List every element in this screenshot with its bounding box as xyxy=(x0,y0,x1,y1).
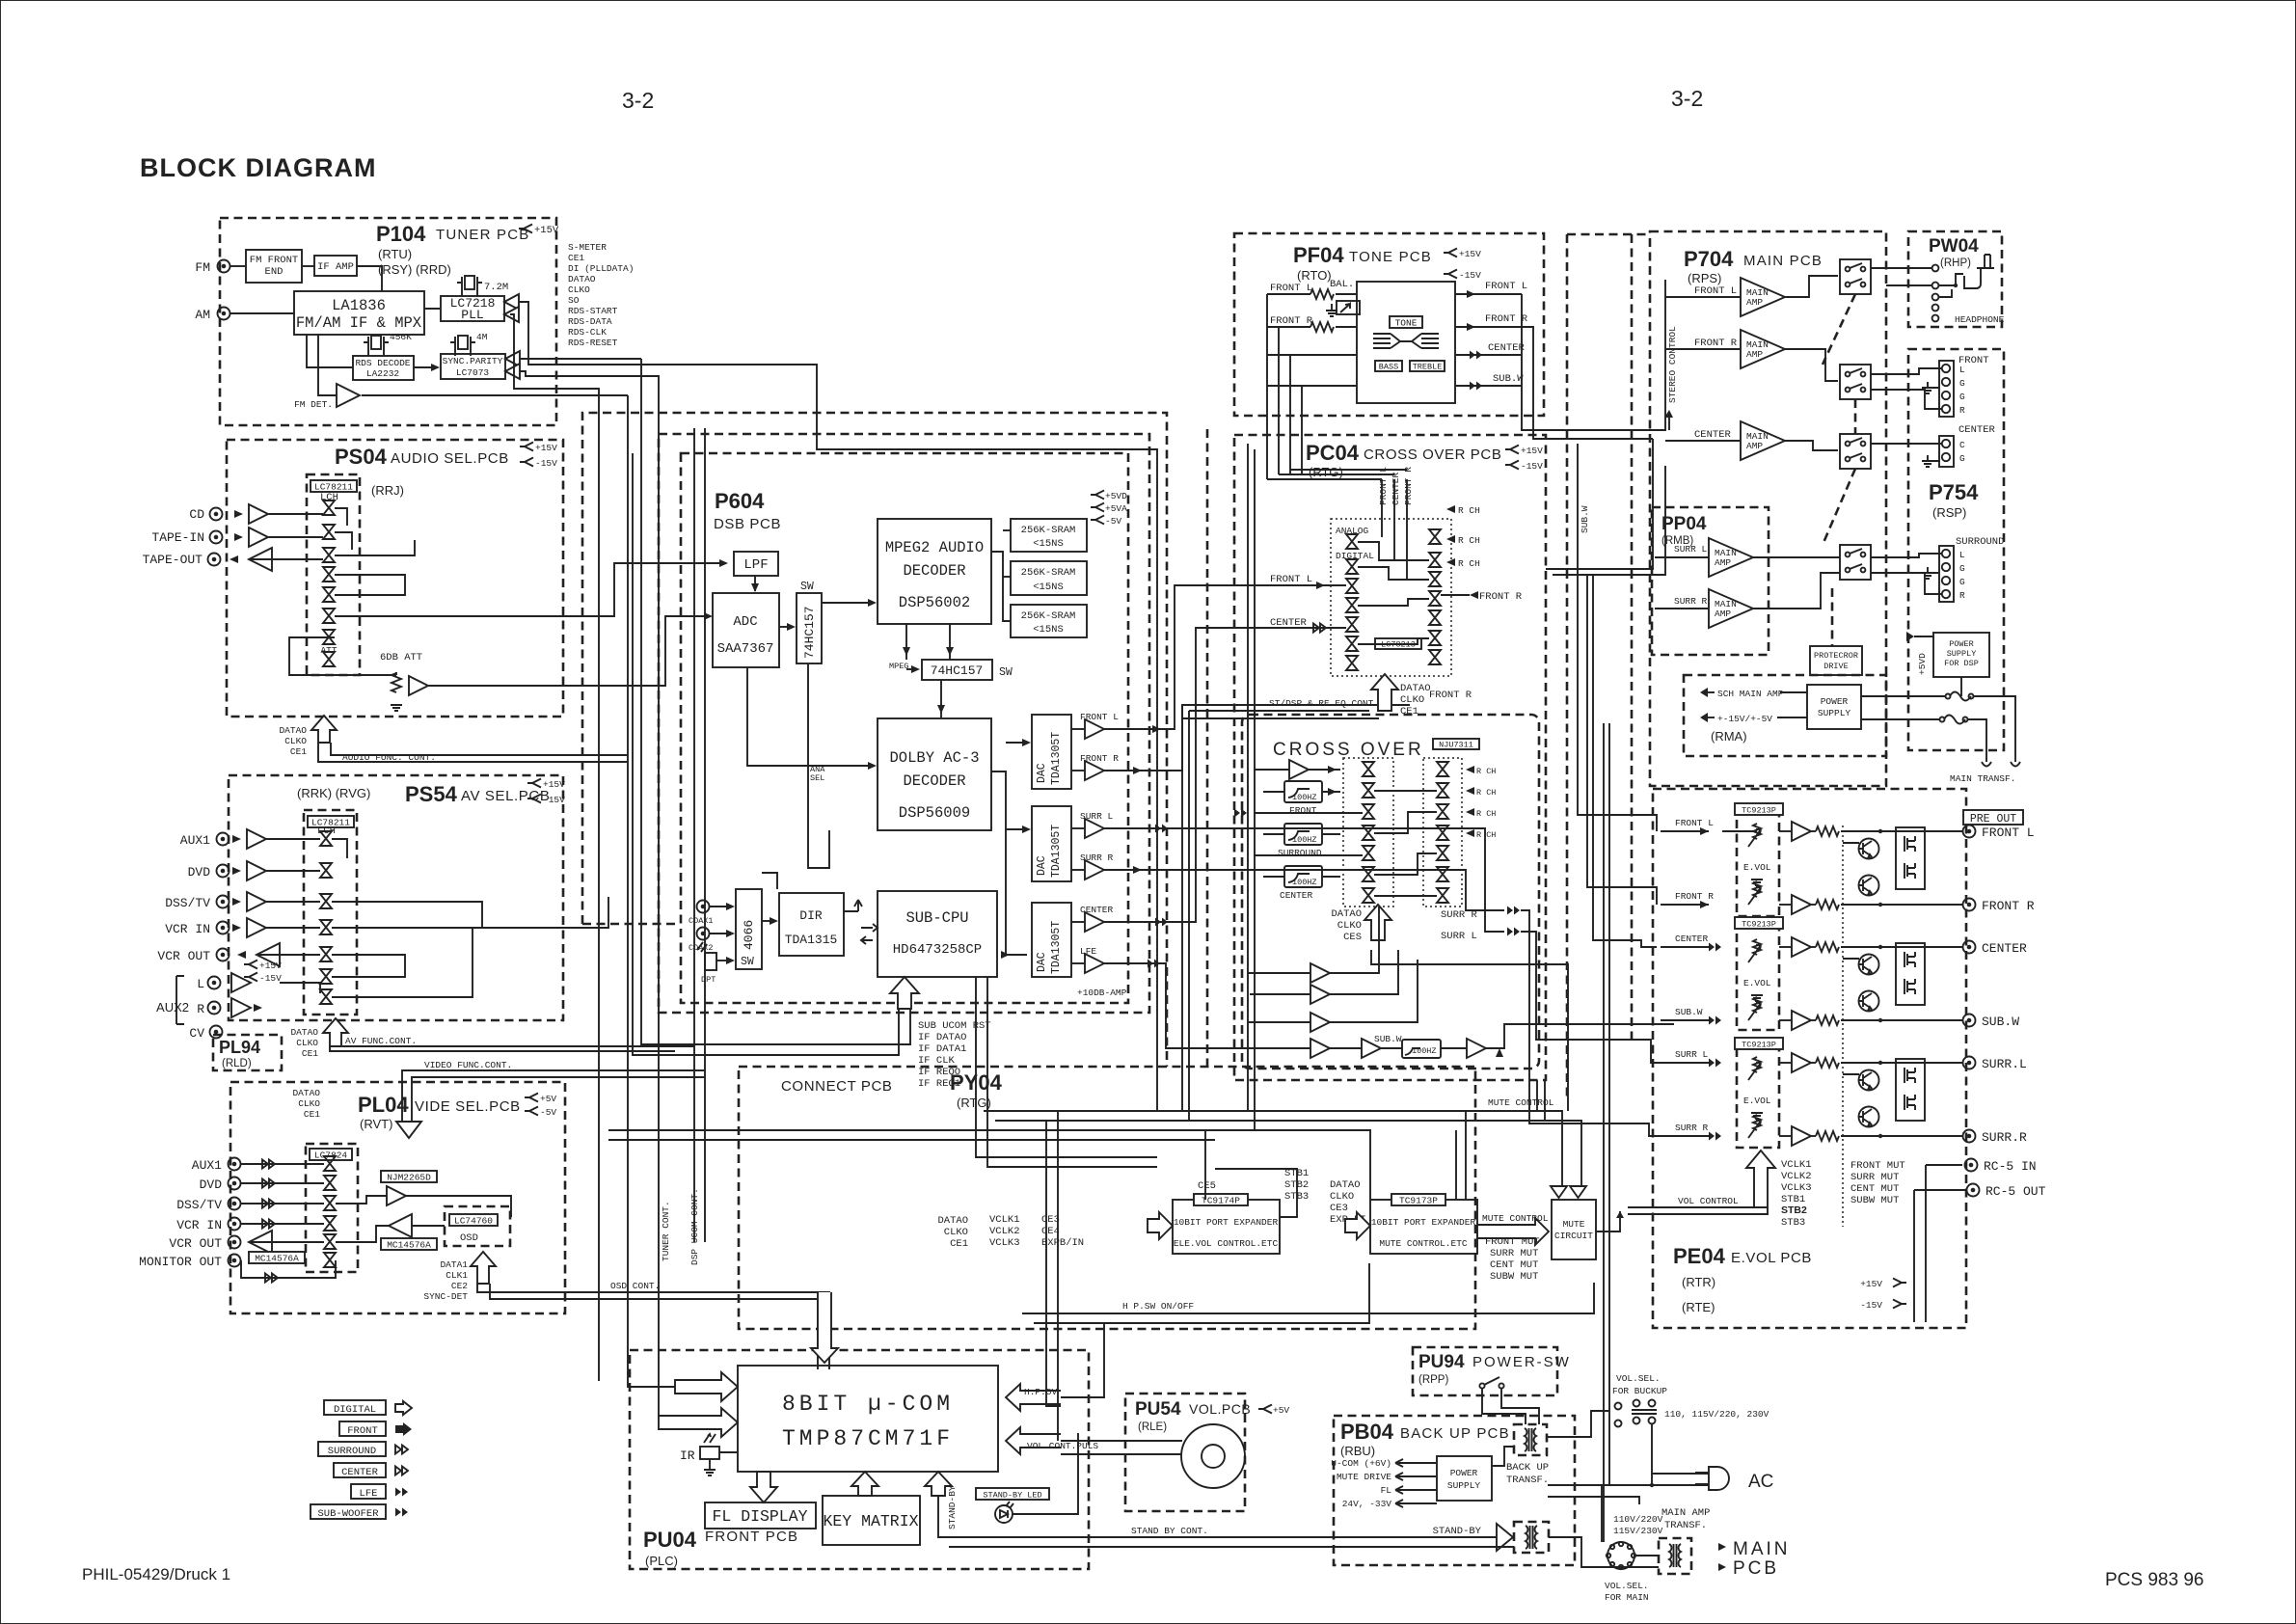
ground surr xyxy=(1922,573,1933,579)
wire tc9173p top feeds xyxy=(1455,1130,1457,1200)
label MC14576A mid xyxy=(381,1238,437,1250)
switch column LC78211 xyxy=(323,501,335,515)
block TC9174P xyxy=(1173,1200,1280,1254)
svg-text:(RPS): (RPS) xyxy=(1688,271,1721,285)
block MUTE CIRCUIT xyxy=(1552,1200,1596,1259)
svg-text:+15V: +15V xyxy=(1459,249,1481,259)
svg-text:R: R xyxy=(1959,590,1965,601)
fet block 2 xyxy=(1896,943,1925,1005)
svg-text:LC7824: LC7824 xyxy=(314,1150,348,1161)
svg-text:RDS-DATA: RDS-DATA xyxy=(568,316,612,327)
arrows down into mute circuit xyxy=(1551,1186,1567,1198)
wire relay to transf xyxy=(1549,1537,1659,1567)
wire bus TUNER CONT. xyxy=(628,395,675,1387)
svg-text:MUTE CONTROL.ETC: MUTE CONTROL.ETC xyxy=(1379,1238,1468,1249)
block POWER SUPPLY main xyxy=(1807,685,1861,729)
amp FM DET xyxy=(337,384,360,407)
svg-text:CLKO: CLKO xyxy=(1400,694,1424,706)
svg-text:SUPPLY: SUPPLY xyxy=(1447,1480,1481,1491)
svg-text:MAIN: MAIN xyxy=(1733,1539,1791,1559)
svg-text:DATAO: DATAO xyxy=(1330,1179,1361,1191)
svg-text:SUB.W: SUB.W xyxy=(1580,505,1590,533)
svg-text:PRE OUT: PRE OUT xyxy=(1970,813,2016,826)
svg-text:(RTO): (RTO) xyxy=(1297,268,1332,283)
svg-text:ATT: ATT xyxy=(320,645,337,656)
svg-text:(RTU): (RTU) xyxy=(378,247,412,261)
block DAC3 TDA1305T xyxy=(1032,903,1071,977)
svg-text:FRONT L: FRONT L xyxy=(1270,574,1312,585)
svg-text:L: L xyxy=(197,977,204,991)
wire TAPEIN to switch xyxy=(268,536,323,538)
svg-text:PHIL-05429/Druck 1: PHIL-05429/Druck 1 xyxy=(82,1565,230,1583)
svg-text:100HZ: 100HZ xyxy=(1292,835,1317,845)
chevrons surr out xyxy=(1507,907,1520,915)
amp OSD to out xyxy=(389,1214,412,1237)
dashed rail top xyxy=(1567,233,1650,236)
svg-text:100HZ: 100HZ xyxy=(1292,878,1317,887)
wire amp to vcr out xyxy=(336,1226,389,1242)
resistor front R xyxy=(1310,322,1334,332)
svg-text:R CH: R CH xyxy=(1476,830,1496,840)
block MPEG2 AUDIO DECODER DSP56002 xyxy=(878,519,991,624)
svg-text:+5V: +5V xyxy=(1273,1405,1289,1416)
main transf hooks xyxy=(1982,762,2020,767)
block ADC SAA7367 xyxy=(713,593,779,667)
arrow into LC7218 right 1 xyxy=(504,294,519,310)
svg-text:SYNC.PARITY: SYNC.PARITY xyxy=(443,356,503,366)
amp 6db att xyxy=(409,676,428,695)
amp ev FL xyxy=(1792,822,1811,841)
backup transformer box xyxy=(1514,1424,1547,1455)
svg-text:DAC: DAC xyxy=(1036,855,1048,876)
wire tuner bus C xyxy=(520,358,641,360)
wire tuner bus A xyxy=(519,302,1157,1111)
svg-text:MONITOR OUT: MONITOR OUT xyxy=(139,1255,222,1269)
svg-text:MC14576A: MC14576A xyxy=(387,1240,431,1251)
svg-text:DAC: DAC xyxy=(1036,952,1048,972)
dot j1 xyxy=(1954,284,1958,287)
block POWER SUPPLY FOR DSP xyxy=(1933,633,1989,677)
wire SL out xyxy=(1104,828,1504,932)
amp main SR xyxy=(1655,608,1709,609)
svg-text:OSD CONT.: OSD CONT. xyxy=(610,1281,660,1291)
svg-text:SURROUND: SURROUND xyxy=(1956,536,2004,548)
svg-text:100HZ: 100HZ xyxy=(1292,793,1317,802)
svg-text:FRONT R: FRONT R xyxy=(1479,591,1523,603)
connector PRE SURR.R xyxy=(1963,1130,1976,1143)
wire DIR to SUBCPU xyxy=(844,900,862,911)
svg-text:CLKO: CLKO xyxy=(284,736,307,746)
svg-text:SW: SW xyxy=(741,956,754,968)
block LPF xyxy=(734,552,778,576)
wire aux1 out xyxy=(332,839,347,858)
RMA dashed outline xyxy=(1684,675,1886,756)
svg-text:E.VOL: E.VOL xyxy=(1743,978,1771,988)
wire IF amp to LA1836 xyxy=(357,266,382,291)
label FRONT R mid xyxy=(1470,591,1478,599)
amp ev SW xyxy=(1792,1011,1811,1030)
svg-text:DSP56002: DSP56002 xyxy=(899,594,970,611)
svg-text:CIRCUIT: CIRCUIT xyxy=(1554,1231,1593,1241)
wire vol cont puls xyxy=(1061,1440,1182,1442)
svg-text:IF DATAO: IF DATAO xyxy=(918,1032,966,1043)
outer dashed frame stub xyxy=(582,923,675,926)
wire vertical 1294 xyxy=(1247,444,1249,1111)
res ev SL xyxy=(1816,1058,1839,1068)
svg-text:LC74760: LC74760 xyxy=(454,1216,493,1227)
power +5VD xyxy=(1091,491,1104,500)
svg-text:10BIT PORT EXPANDER: 10BIT PORT EXPANDER xyxy=(1371,1217,1476,1228)
svg-text:(RTE): (RTE) xyxy=(1682,1300,1715,1314)
legend FRONT xyxy=(339,1421,386,1436)
svg-text:E.VOL: E.VOL xyxy=(1743,1096,1771,1106)
svg-text:+15V: +15V xyxy=(534,225,559,236)
wires tone left xyxy=(1267,293,1310,295)
connector PRE SUB.W xyxy=(1963,1015,1976,1027)
svg-text:FM: FM xyxy=(195,260,210,275)
power +5VA xyxy=(1091,503,1104,512)
switch S1 xyxy=(1479,1383,1484,1388)
wire MPEG2 down to 74HC157 sw xyxy=(905,624,907,660)
wire LFE out xyxy=(1104,963,1362,1048)
svg-text:HEADPHONE: HEADPHONE xyxy=(1955,314,2005,325)
wires subw xyxy=(1381,1047,1402,1049)
wire DOLBY to DAC bus xyxy=(991,771,1006,955)
svg-text:BACK UP: BACK UP xyxy=(1506,1462,1549,1474)
power -5V xyxy=(1091,516,1104,525)
svg-text:VCLK3: VCLK3 xyxy=(1781,1182,1812,1194)
wire tuner bus E xyxy=(510,314,599,1381)
svg-text:DATAO: DATAO xyxy=(568,274,596,284)
svg-text:+15V: +15V xyxy=(1860,1279,1882,1289)
wire 74HC157sw to DOLBY xyxy=(940,680,942,717)
svg-text:(RRJ): (RRJ) xyxy=(371,483,404,498)
fuse 2 xyxy=(1861,718,1940,720)
svg-text:STAND-BY LED: STAND-BY LED xyxy=(983,1491,1041,1501)
wires coax to 4066 xyxy=(710,906,731,907)
label LC7824 xyxy=(310,1149,352,1160)
PY04 connect outline xyxy=(739,1067,1475,1329)
svg-text:MPEG2 AUDIO: MPEG2 AUDIO xyxy=(885,539,984,556)
PCB PU94 outline xyxy=(1413,1347,1557,1395)
svg-text:R CH: R CH xyxy=(1458,505,1480,516)
svg-text:SURR MUT: SURR MUT xyxy=(1850,1172,1899,1183)
svg-text:4066: 4066 xyxy=(742,920,756,950)
PCB PB04 outline xyxy=(1334,1416,1575,1565)
evol pot 2b xyxy=(1748,997,1761,1020)
crystal X1 7.2M xyxy=(457,276,482,289)
svg-text:SUB.W: SUB.W xyxy=(1493,373,1524,385)
svg-text:VOL CONTROL: VOL CONTROL xyxy=(1678,1196,1739,1206)
svg-text:AUDIO SEL.PCB: AUDIO SEL.PCB xyxy=(391,450,509,467)
wire standby 2 xyxy=(949,1546,1514,1548)
svg-text:BAL.: BAL. xyxy=(1330,279,1354,290)
filter 100HZ subw xyxy=(1402,1040,1441,1058)
amp VCR OUT video xyxy=(249,1231,272,1254)
svg-text:CENTER: CENTER xyxy=(1982,941,2027,956)
svg-text:R CH: R CH xyxy=(1458,558,1480,569)
svg-text:DSB PCB: DSB PCB xyxy=(714,516,781,532)
svg-text:FRONT MUT: FRONT MUT xyxy=(1850,1160,1905,1172)
svg-text:PCS 983 96: PCS 983 96 xyxy=(2105,1570,2203,1590)
svg-text:DATAO: DATAO xyxy=(290,1027,318,1038)
svg-text:(RTG): (RTG) xyxy=(1309,465,1343,479)
relay standby box xyxy=(1514,1522,1549,1553)
dotted box xover B xyxy=(1423,758,1462,907)
PCB PP04 outline xyxy=(1652,507,1769,655)
wire LA1836 to LC7218 xyxy=(424,308,441,310)
svg-text:CLKO: CLKO xyxy=(568,284,590,295)
transistor Q2 xyxy=(1859,876,1879,896)
svg-text:S-METER: S-METER xyxy=(568,242,607,253)
svg-text:+15V: +15V xyxy=(543,779,565,790)
svg-text:(RVT): (RVT) xyxy=(360,1117,392,1131)
svg-text:-15V: -15V xyxy=(543,795,565,805)
svg-text:110, 115V/220, 230V: 110, 115V/220, 230V xyxy=(1664,1409,1769,1420)
output rail xyxy=(1841,830,1962,832)
svg-text:RDS-RESET: RDS-RESET xyxy=(568,338,618,348)
selector contacts backup xyxy=(1615,1403,1622,1410)
wire DOLBY left loop xyxy=(762,873,777,889)
svg-text:DIR: DIR xyxy=(799,908,823,923)
label LC78213 xyxy=(1375,638,1421,649)
svg-text:CE1: CE1 xyxy=(950,1238,968,1250)
svg-text:DVD: DVD xyxy=(200,1177,223,1192)
svg-text:-15V: -15V xyxy=(535,458,557,469)
wire surr l to evol xyxy=(1521,932,1661,1063)
block 74HC157 vertical xyxy=(797,593,822,663)
svg-text:TC9213P: TC9213P xyxy=(1742,806,1776,816)
wire bundle into matrix xyxy=(1381,479,1383,537)
svg-text:+-15V/+-5V: +-15V/+-5V xyxy=(1717,714,1772,724)
IC TC9213P box2 xyxy=(1737,923,1779,1030)
wire SR out xyxy=(1104,870,1504,910)
arrow into sync parity right 2 xyxy=(505,364,520,379)
amp subw 1 xyxy=(1362,1039,1381,1058)
IC LC78211 inner box xyxy=(304,810,357,1015)
block SYNC.PARITY LC7073 xyxy=(441,354,505,379)
svg-text:TMP87CM71F: TMP87CM71F xyxy=(782,1426,954,1451)
svg-text:LFE: LFE xyxy=(360,1488,378,1500)
svg-text:IR: IR xyxy=(680,1448,695,1463)
wire amp to osd xyxy=(406,1196,511,1217)
svg-text:RDS-START: RDS-START xyxy=(568,306,618,316)
svg-text:E.VOL: E.VOL xyxy=(1743,862,1771,873)
voltage selector rotary xyxy=(1607,1542,1634,1569)
amp ev C xyxy=(1792,937,1811,957)
svg-text:BASS: BASS xyxy=(1379,363,1398,372)
arrow key matrix to ucom xyxy=(851,1472,878,1496)
svg-text:POWER: POWER xyxy=(1821,696,1849,707)
filter 100HZ 1 xyxy=(1284,781,1322,802)
svg-text:3-2: 3-2 xyxy=(622,88,654,113)
svg-text:100HZ: 100HZ xyxy=(1412,1046,1437,1056)
block IF AMP xyxy=(314,256,357,276)
svg-text:SCH MAIN AMP: SCH MAIN AMP xyxy=(1717,689,1784,699)
arrow into ucom top xyxy=(811,1292,838,1363)
svg-text:FM/AM IF & MPX: FM/AM IF & MPX xyxy=(296,314,422,332)
svg-text:FL: FL xyxy=(1381,1485,1392,1496)
svg-text:PS54: PS54 xyxy=(405,782,458,806)
svg-text:-15V: -15V xyxy=(1860,1300,1882,1311)
svg-text:(RSP): (RSP) xyxy=(1932,505,1966,520)
wire LPF down to ADC xyxy=(754,576,756,591)
svg-text:SW: SW xyxy=(800,581,814,593)
svg-text:RC-5 OUT: RC-5 OUT xyxy=(1985,1184,2046,1199)
svg-text:PL04: PL04 xyxy=(358,1093,409,1117)
svg-text:(RBU): (RBU) xyxy=(1340,1444,1375,1458)
svg-text:CD: CD xyxy=(189,507,204,522)
svg-text:256K-SRAM: 256K-SRAM xyxy=(1021,610,1076,622)
label PRE OUT xyxy=(1963,810,2023,825)
amp low4 xyxy=(1310,1039,1330,1058)
svg-text:ADC: ADC xyxy=(733,614,757,630)
svg-text:SURROUND: SURROUND xyxy=(1278,848,1322,858)
wire ces cont xyxy=(1371,950,1568,1111)
svg-text:MUTE: MUTE xyxy=(1563,1219,1585,1230)
terminal FRONT xyxy=(1939,361,1954,417)
svg-text:-15V: -15V xyxy=(1521,461,1543,472)
amp main FR xyxy=(1665,348,1741,350)
svg-text:110V/220V: 110V/220V xyxy=(1613,1514,1663,1525)
wire c to relay xyxy=(1785,441,1838,450)
wire CD to switch xyxy=(268,513,323,515)
svg-text:3-2: 3-2 xyxy=(1671,86,1703,111)
switch col XB xyxy=(1437,762,1448,776)
wire aux2 L xyxy=(280,983,320,993)
svg-text:FRONT R: FRONT R xyxy=(1982,899,2035,913)
svg-text:TRANSF.: TRANSF. xyxy=(1506,1475,1549,1486)
svg-text:PE04: PE04 xyxy=(1673,1244,1726,1268)
svg-text:TC9213P: TC9213P xyxy=(1742,1041,1776,1050)
svg-text:STAND-BY: STAND-BY xyxy=(1433,1526,1482,1537)
LED D1 xyxy=(995,1502,1013,1523)
svg-text:AV FUNC.CONT.: AV FUNC.CONT. xyxy=(345,1036,417,1046)
relay block 1 xyxy=(1840,259,1871,294)
stereo control arrow xyxy=(1664,410,1673,418)
svg-text:P604: P604 xyxy=(715,489,765,513)
arrow mute to circuit xyxy=(1477,1218,1549,1245)
terminal SURROUND xyxy=(1939,546,1954,602)
wire tone out bus to main xyxy=(1522,280,1665,430)
svg-text:NJM2265D: NJM2265D xyxy=(387,1173,431,1183)
block 4066 SW xyxy=(736,889,762,969)
block PROTECROR DRIVE xyxy=(1810,646,1862,675)
power +15V xyxy=(520,443,533,451)
wires col A to col B xyxy=(1358,542,1429,560)
arrows backup outputs xyxy=(1395,1459,1437,1467)
block SRAM1 xyxy=(1011,519,1087,552)
wires switch outputs right xyxy=(335,508,347,526)
wires tone right xyxy=(1455,293,1522,295)
wire FL out xyxy=(1104,585,1244,729)
dashed rail right xyxy=(1631,234,1634,1042)
arrow standby to ucom xyxy=(925,1472,952,1496)
wire transf right xyxy=(1547,1411,1608,1437)
svg-text:PCB: PCB xyxy=(1733,1558,1779,1579)
svg-text:(RPP): (RPP) xyxy=(1418,1374,1448,1386)
svg-text:AUDIO FUNC. CONT.: AUDIO FUNC. CONT. xyxy=(342,752,436,763)
wire ac main xyxy=(1548,1484,1714,1486)
PCB PF04 outline xyxy=(1234,233,1544,416)
svg-text:+5V: +5V xyxy=(540,1094,556,1104)
wire 74HC157v bottom down xyxy=(808,663,829,868)
svg-text:DIGITAL: DIGITAL xyxy=(334,1404,376,1416)
svg-text:74HC157: 74HC157 xyxy=(802,606,817,659)
connector PRE FRONT R xyxy=(1963,899,1976,911)
svg-text:MUTE CONTROL: MUTE CONTROL xyxy=(1488,1097,1554,1108)
svg-text:ST/DSP & RE EQ CONT.: ST/DSP & RE EQ CONT. xyxy=(1269,698,1379,709)
svg-text:PC04: PC04 xyxy=(1306,441,1360,465)
control arrow into PS04 xyxy=(311,716,337,743)
wire osd to amp xyxy=(412,1225,445,1227)
wire front l in xyxy=(1244,584,1346,586)
control arrow into OSD xyxy=(471,1252,496,1284)
svg-text:CENTER: CENTER xyxy=(1675,934,1709,944)
svg-text:TONE: TONE xyxy=(1395,318,1418,329)
wires transf to main pcb xyxy=(1691,1543,1726,1551)
wire long V1 front l xyxy=(1578,444,1657,831)
resistor front L xyxy=(1310,289,1334,299)
label NJU7311 xyxy=(1433,739,1479,749)
amp TAPE in xyxy=(234,533,243,541)
svg-text:RDS-CLK: RDS-CLK xyxy=(568,327,607,338)
svg-text:+5VA: +5VA xyxy=(1105,503,1127,514)
res ev FR xyxy=(1816,900,1839,909)
PCB PE04 outline xyxy=(1653,789,1966,1328)
power +15V xyxy=(527,779,541,788)
wire fl to relay xyxy=(1785,276,1838,297)
svg-text:VCLK1: VCLK1 xyxy=(989,1214,1020,1226)
balance pot xyxy=(1337,301,1360,314)
relay block 4 xyxy=(1840,545,1871,580)
svg-text:SUB.W: SUB.W xyxy=(1982,1015,2019,1029)
svg-text:(PLC): (PLC) xyxy=(645,1554,678,1568)
wire mute control xyxy=(984,1111,1562,1186)
svg-text:74HC157: 74HC157 xyxy=(931,663,984,678)
svg-text:SURR MUT: SURR MUT xyxy=(1490,1248,1538,1259)
label LC78211 xyxy=(311,480,357,492)
svg-text:SURR L: SURR L xyxy=(1675,1049,1709,1060)
PCB PC04 outline xyxy=(1234,435,1546,1080)
svg-text:AC: AC xyxy=(1748,1472,1773,1492)
power -15V xyxy=(520,458,533,467)
wire ir to ucom xyxy=(719,1451,738,1453)
svg-text:24V, -33V: 24V, -33V xyxy=(1342,1499,1392,1509)
svg-text:SUB.W: SUB.W xyxy=(1675,1007,1703,1017)
svg-text:CROSS OVER: CROSS OVER xyxy=(1273,740,1424,760)
svg-text:CE5: CE5 xyxy=(1198,1180,1216,1192)
svg-text:<15NS: <15NS xyxy=(1033,538,1064,550)
svg-text:7.2M: 7.2M xyxy=(484,282,508,293)
PCB P754 outline xyxy=(1908,349,2004,750)
svg-text:P104: P104 xyxy=(376,222,426,246)
svg-text:SUBW MUT: SUBW MUT xyxy=(1850,1195,1899,1206)
wires low amps xyxy=(1248,972,1310,974)
resistor 6db xyxy=(392,673,401,692)
amp main C xyxy=(1665,440,1741,442)
svg-text:TONE PCB: TONE PCB xyxy=(1349,249,1432,265)
svg-text:STB2: STB2 xyxy=(1781,1204,1807,1216)
svg-text:CE1: CE1 xyxy=(290,746,307,757)
transistor Q4 xyxy=(1859,991,1879,1012)
PCB P604 outline xyxy=(659,434,1149,1013)
svg-text:(RMA): (RMA) xyxy=(1711,729,1747,744)
svg-text:L: L xyxy=(1959,550,1965,560)
amp main FL xyxy=(1665,296,1741,298)
svg-text:VIDEO FUNC.CONT.: VIDEO FUNC.CONT. xyxy=(424,1060,512,1070)
power -15V xyxy=(1444,270,1457,279)
